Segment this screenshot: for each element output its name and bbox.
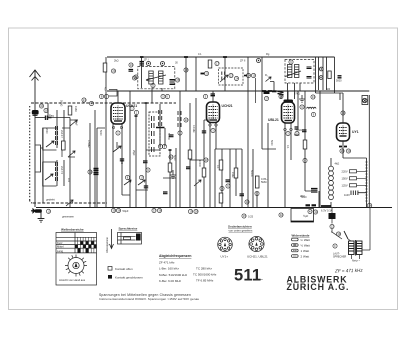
svg-text:Kontakt offen: Kontakt offen (115, 267, 133, 271)
filler wires mid band (122, 103, 210, 207)
band switch S1a (46, 141, 54, 147)
node 12 (46, 209, 50, 213)
svg-text:gedreht: gedreht (46, 198, 55, 202)
svg-text:220V: 220V (342, 170, 348, 174)
svg-text:Ansicht von Hand aus: Ansicht von Hand aus (59, 278, 86, 282)
node 17t (215, 61, 219, 65)
pin circles V1 (112, 126, 115, 129)
osc padder dashed box (219, 68, 244, 85)
node 15b (251, 73, 255, 77)
resistor R-osc (188, 150, 192, 159)
svg-text:5000: 5000 (336, 80, 342, 83)
svg-text:½ Watt: ½ Watt (301, 244, 311, 248)
svg-text:150V: 150V (342, 177, 348, 181)
wire IFT1 out (152, 88, 162, 103)
svg-text:R₁: R₁ (265, 74, 268, 77)
trimmer on bus (257, 59, 261, 63)
node 9 (289, 60, 293, 64)
wire x268 (267, 123, 269, 207)
phono switch S4 (266, 77, 272, 82)
node pair right of V1 (130, 106, 134, 110)
svg-text:10000: 10000 (198, 160, 201, 168)
socket UCH21/UBL21 (249, 236, 264, 251)
node 10 above V4 (341, 111, 345, 115)
heater tap bracket (109, 90, 117, 97)
svg-text:50000: 50000 (250, 170, 253, 178)
node pair osc top (161, 94, 165, 98)
wire x262 top (261, 57, 263, 91)
blob node 21b (201, 73, 205, 75)
node 24 (234, 76, 238, 80)
svg-text:5000: 5000 (270, 140, 273, 146)
osc trimmer a (319, 67, 323, 71)
svg-text:½μF: ½μF (303, 214, 309, 218)
node 30a (346, 149, 350, 153)
tuner shield box dashed top (31, 102, 176, 104)
wire selector bus (366, 158, 368, 207)
resistor R500 (62, 141, 66, 150)
svg-text:500Ω: 500Ω (60, 100, 64, 106)
wave band coil L1 (56, 126, 58, 145)
svg-text:1 Watt: 1 Watt (301, 249, 310, 253)
wire tube4 stems (331, 93, 367, 166)
node 4 (134, 75, 138, 79)
capacitor C-ant (46, 116, 52, 121)
svg-text:4,5: 4,5 (104, 87, 108, 91)
svg-text:0.1: 0.1 (216, 165, 219, 169)
svg-text:2 Watt: 2 Watt (301, 255, 310, 259)
svg-text:2x0.17: 2x0.17 (60, 130, 64, 138)
svg-text:6.3V 0.3A: 6.3V 0.3A (321, 209, 333, 213)
node 9c (300, 105, 304, 109)
svg-text:K-Ber. 6.00 MHz: K-Ber. 6.00 MHz (159, 279, 182, 283)
svg-text:1MΩ: 1MΩ (74, 106, 78, 112)
junction blob x274 (272, 90, 277, 92)
wire tube3 stems (285, 91, 291, 207)
node 3 below V2 (211, 128, 215, 132)
tuner shield box dashed left (30, 106, 33, 203)
band switch S1b (45, 174, 53, 180)
node 7 (255, 191, 259, 195)
svg-text:B: B (101, 95, 103, 99)
node fill4 (184, 118, 188, 122)
node 37 pair (152, 208, 156, 212)
cap fill3 (202, 131, 206, 133)
svg-text:511: 511 (234, 267, 261, 285)
grid cap blob V2 (211, 94, 216, 96)
svg-text:0.1: 0.1 (286, 145, 289, 149)
grid cap blob V1 (140, 62, 145, 66)
IFT2 trimmer blobs (307, 67, 312, 78)
wire IFT2 feeds (281, 83, 300, 99)
node 28 above V3 (279, 94, 283, 98)
resistor R-ag (68, 106, 72, 115)
svg-text:2000: 2000 (45, 128, 48, 134)
node 14 (88, 170, 92, 174)
node 15 (242, 214, 246, 218)
blob fills (135, 103, 172, 150)
band filter box 2 (43, 162, 57, 186)
volume pot resistor R7 (255, 176, 259, 188)
svg-text:100: 100 (67, 178, 70, 183)
resistor R-sg2 (208, 60, 212, 68)
heater choke chain (329, 166, 334, 200)
wire IFT1 feed (141, 57, 143, 88)
wire x186 drop (185, 57, 187, 91)
node 19 (129, 63, 133, 67)
wire x95 (94, 110, 96, 207)
tuning gang C-var1 (113, 142, 121, 152)
wire HT corner (316, 57, 344, 100)
wire bottom chassis bus (36, 207, 392, 209)
svg-text:Reg: Reg (49, 114, 54, 118)
wire choke bottom (330, 202, 332, 207)
svg-text:Rg: Rg (266, 52, 270, 56)
svg-text:¼ Watt: ¼ Watt (301, 238, 311, 242)
switch mid S2 (194, 180, 201, 186)
svg-text:von unten gesehen: von unten gesehen (229, 229, 253, 233)
svg-text:Uhrzeigersinn: Uhrzeigersinn (105, 236, 109, 253)
svg-text:ZF I: ZF I (144, 59, 149, 62)
svg-text:5000: 5000 (301, 196, 307, 199)
node B (220, 186, 224, 190)
svg-text:2x0.74: 2x0.74 (60, 166, 64, 174)
transformer wires (348, 207, 370, 259)
tap winding (351, 191, 367, 196)
antenna (30, 70, 41, 207)
svg-text:Abgleichfrequenzen: Abgleichfrequenzen (159, 254, 191, 258)
wire x255 (255, 78, 257, 103)
electrolytic 50+50 blobs (306, 204, 317, 206)
svg-text:ZF = 471 kHz: ZF = 471 kHz (334, 268, 363, 274)
svg-text:47kΩ: 47kΩ (294, 93, 300, 96)
contact legend closed (108, 275, 112, 279)
node 2 (178, 131, 182, 135)
tube V3 UBL21 (282, 102, 295, 127)
wire tube2 stem (210, 91, 216, 207)
padder trimmer 17 (138, 180, 145, 185)
node 8b (303, 158, 307, 162)
svg-text:5000: 5000 (99, 130, 102, 136)
svg-text:Kurz: Kurz (57, 241, 63, 245)
node F (333, 244, 337, 248)
node 5 above V2 (203, 94, 207, 98)
osc coil hf (178, 111, 181, 127)
svg-text:110V: 110V (344, 193, 350, 197)
IF transformer 2 shield (dashed) (285, 60, 314, 84)
node fill3 (204, 158, 208, 162)
svg-text:25pF: 25pF (132, 150, 135, 156)
IFT1 primary coil (149, 71, 153, 84)
capacitor C-ht (338, 76, 342, 78)
svg-text:UY1: UY1 (352, 130, 359, 134)
node 21 (82, 98, 86, 102)
padder coil (222, 72, 225, 80)
capacitor C-det (278, 91, 284, 95)
svg-text:TC 280 kHz: TC 280 kHz (196, 267, 212, 271)
svg-text:Wellenbereiche: Wellenbereiche (61, 228, 84, 232)
node 14b blob (244, 75, 247, 77)
node 3 below V3 (286, 131, 290, 135)
svg-text:50μF: 50μF (123, 209, 129, 213)
IFT1 trimmer C2 (161, 62, 165, 66)
osc coil band2 (159, 110, 162, 126)
mains switch (331, 229, 342, 239)
contact matrix filled cells (75, 241, 97, 252)
pin blobs V4 (339, 146, 347, 148)
svg-text:UCH21, UBL21: UCH21, UBL21 (247, 255, 268, 259)
svg-text:M-Ber. 510/1600 kHz: M-Ber. 510/1600 kHz (159, 273, 188, 277)
svg-text:Widerstände: Widerstände (292, 234, 310, 238)
wire 50uF riser (305, 165, 319, 207)
resistor R-k1 (103, 63, 107, 72)
IFT1 secondary coil (159, 71, 163, 84)
svg-text:UCH21: UCH21 (222, 104, 233, 108)
node 16 (245, 200, 249, 204)
grid cap blob V3 (284, 100, 294, 103)
resistor fill1 (168, 163, 172, 172)
IFT2 tuning arrow (286, 71, 302, 77)
tube V4 UY1 rectifier (337, 123, 350, 141)
svg-text:0.1MΩ: 0.1MΩ (192, 125, 195, 133)
resistor R-screen V3 (303, 140, 307, 149)
svg-text:ZF II: ZF II (240, 59, 246, 63)
padder arrow (220, 75, 228, 82)
IF transformer 1 shield (dashed) (138, 67, 175, 89)
resistor R-vol components (219, 160, 223, 170)
junction blob antenna bus (35, 209, 42, 212)
node 41 (313, 210, 317, 214)
waveband table box (56, 233, 97, 286)
node 28b (367, 203, 372, 208)
pilot lamp (362, 96, 368, 105)
tone cap C-tone (302, 130, 307, 132)
capacitor blobs volume box (226, 180, 231, 182)
IFT2 secondary coil (295, 65, 299, 78)
wire x48 (43, 103, 48, 203)
svg-text:5000: 5000 (173, 155, 176, 161)
wire x70 (52, 118, 71, 208)
tap resistors (350, 170, 357, 187)
switch S3b (68, 151, 75, 157)
node sg (184, 68, 188, 72)
svg-text:5MΩ: 5MΩ (261, 180, 267, 184)
detector coil arcs (307, 107, 317, 108)
IFT2 primary coil (288, 65, 292, 78)
antenna coupling coil (32, 110, 39, 115)
node 31 (311, 95, 315, 99)
node 22 (330, 224, 334, 228)
svg-text:SPRECHER: SPRECHER (333, 256, 347, 259)
node 6 (226, 184, 230, 188)
wire S4 out (270, 82, 274, 92)
selector hatches (365, 162, 368, 201)
svg-text:0.5MΩ: 0.5MΩ (87, 140, 90, 148)
svg-text:R: R (91, 102, 93, 106)
wire x90 (89, 123, 91, 207)
wire antenna coil branch (35, 117, 45, 119)
svg-text:Kontakt geschlossen: Kontakt geschlossen (115, 275, 143, 279)
wire x257 (256, 192, 258, 207)
pin circles V3 (284, 128, 287, 131)
antenna trap box (36, 145, 44, 172)
band filter box 1 (43, 128, 57, 150)
cap fill1 (120, 159, 124, 161)
node pair osc mid (158, 144, 162, 148)
svg-text:B: B (221, 187, 223, 191)
wire oscillator coil legs (57, 110, 64, 186)
mains cap (331, 207, 333, 213)
svg-text:2kΩ: 2kΩ (114, 60, 119, 63)
svg-text:4kΩ: 4kΩ (335, 162, 340, 166)
node 26 (175, 78, 179, 82)
cap fill2 (144, 186, 148, 188)
node pair above x105 (99, 94, 103, 98)
svg-text:125V: 125V (342, 184, 348, 188)
pin circles V2 (209, 124, 212, 127)
wire IFT2 to V3 (288, 83, 295, 101)
short stubs left (62, 120, 78, 157)
wire x196b (195, 98, 197, 207)
socket UY1 (218, 237, 233, 252)
wire x105 (105, 57, 107, 207)
down arrow (110, 229, 114, 249)
svg-text:0.25: 0.25 (248, 215, 254, 219)
capacitor mid blobs (169, 135, 174, 137)
resistor on riser (311, 189, 318, 193)
node 27 (264, 96, 268, 100)
power transformer (349, 240, 363, 256)
padder trimmer 8 (124, 180, 131, 185)
svg-text:TC 500/1600 kHz: TC 500/1600 kHz (193, 273, 217, 277)
switch dial (65, 255, 87, 277)
svg-text:UY1+: UY1+ (221, 255, 229, 259)
node 25 (132, 76, 136, 80)
wire af coupling (262, 91, 276, 149)
wire right riser (368, 95, 370, 207)
node fill2 (169, 155, 173, 159)
voltage selector taps (342, 170, 351, 198)
svg-text:Instrumentenwiderstand 833Ω/V.: Instrumentenwiderstand 833Ω/V. Spannunge… (99, 297, 199, 301)
wire x305 (304, 91, 306, 165)
node fill1 (146, 168, 150, 172)
wire x97 branch (97, 128, 105, 207)
tube V2 UCH21 (207, 102, 220, 127)
blobs osc (156, 127, 165, 129)
node 29 (340, 149, 344, 153)
svg-text:Mittel: Mittel (57, 245, 64, 249)
tuner shield box dashed bottom (33, 202, 107, 204)
IFT1 padder blobs (170, 80, 175, 85)
node 1 below V1 (116, 131, 120, 135)
wire x225 top (224, 57, 226, 91)
wire x160 osc (160, 104, 176, 207)
wire x248 (247, 57, 249, 207)
node 39 (336, 232, 340, 236)
node 23 (229, 73, 233, 77)
svg-text:gemessen: gemessen (62, 216, 75, 219)
oscillator coil assembly (149, 112, 160, 156)
svg-text:ZF 471 kHz: ZF 471 kHz (159, 261, 175, 265)
svg-text:1MΩ: 1MΩ (231, 172, 234, 177)
ground mid2 (299, 95, 305, 102)
svg-text:50pF: 50pF (75, 120, 78, 126)
capacitor C-sg (129, 70, 134, 72)
wire second bus (107, 90, 369, 92)
IFT1 tuning arrow (146, 75, 166, 81)
resistor R-det blob (264, 92, 270, 93)
wire x190 (189, 103, 191, 207)
node 20 (111, 69, 115, 73)
resistor fill2 (202, 168, 206, 177)
wire x320 (319, 91, 321, 207)
svg-text:Netz ~: Netz ~ (352, 259, 361, 263)
blob on H1 (140, 57, 272, 91)
svg-text:0.1: 0.1 (198, 53, 202, 56)
svg-text:Sprechkreise: Sprechkreise (119, 227, 138, 231)
svg-text:ZÜRICH A.G.: ZÜRICH A.G. (287, 282, 350, 292)
svg-text:–: – (260, 277, 263, 283)
tube V1 UCH21 (111, 103, 125, 126)
wire x196 (195, 57, 197, 91)
svg-text:L-Ber. 160 kHz: L-Ber. 160 kHz (159, 267, 179, 271)
svg-text:TF 6.85 MHz: TF 6.85 MHz (196, 279, 214, 283)
node 9b (311, 112, 315, 116)
contact legend open (108, 267, 112, 271)
wire x298 (297, 91, 299, 130)
electrolytic C14 (94, 169, 99, 175)
osc trimmer b (319, 76, 323, 80)
IFT1 trimmer C (147, 62, 151, 66)
svg-text:UBL21: UBL21 (268, 118, 279, 122)
node R (89, 101, 93, 105)
node 35 pair (111, 208, 115, 212)
wire tube1 stem (113, 91, 122, 207)
svg-text:Lang: Lang (57, 249, 63, 253)
switch S3c (66, 200, 73, 206)
switch S3a (70, 120, 77, 126)
node 18 (44, 108, 48, 112)
wave band coil L2 (56, 162, 58, 181)
ground symbol mid (170, 170, 177, 178)
cap C10 (295, 127, 299, 129)
node 32 (279, 213, 283, 217)
wire top HT bus (107, 56, 335, 58)
wire volume box (215, 149, 253, 207)
node 11 (151, 83, 155, 87)
resistor R-ht (328, 71, 331, 79)
svg-text:500: 500 (326, 88, 331, 91)
node 40 (308, 209, 312, 213)
chassis ground stub (38, 213, 45, 223)
wire x130 (129, 91, 131, 207)
node pair below bus x190 (188, 209, 192, 213)
tone cap box (291, 209, 314, 223)
wire x180 (179, 91, 181, 207)
node 34 (39, 104, 43, 108)
junction blobs mains (321, 205, 331, 207)
